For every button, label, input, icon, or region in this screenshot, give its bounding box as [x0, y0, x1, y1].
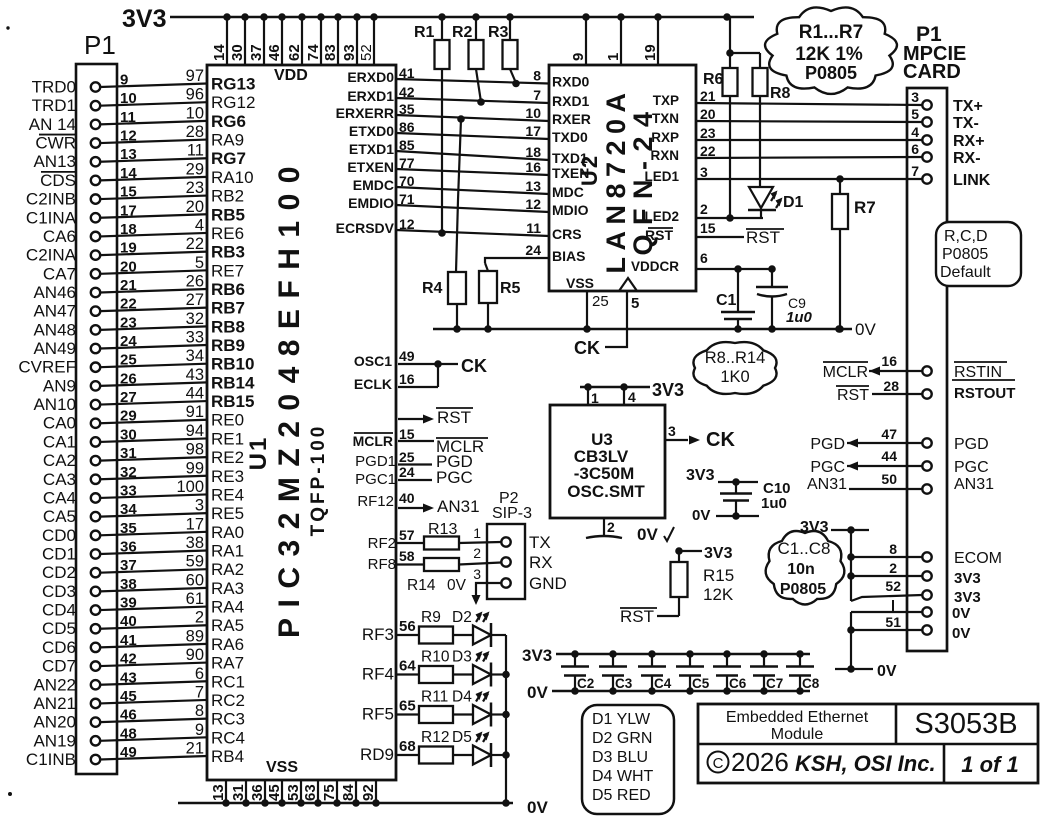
svg-text:2: 2 [473, 545, 481, 561]
svg-text:3V3: 3V3 [954, 570, 981, 587]
svg-text:22: 22 [186, 235, 204, 253]
svg-text:92: 92 [360, 784, 377, 801]
svg-text:23: 23 [120, 314, 137, 331]
svg-text:21: 21 [120, 277, 137, 294]
svg-text:RF4: RF4 [362, 665, 394, 684]
svg-text:C6: C6 [729, 676, 747, 691]
svg-text:BIAS: BIAS [552, 248, 585, 264]
svg-text:RX-: RX- [953, 150, 981, 167]
svg-text:15: 15 [120, 184, 137, 201]
svg-text:49: 49 [120, 744, 137, 761]
svg-text:RST: RST [746, 228, 780, 247]
svg-text:21: 21 [186, 739, 204, 757]
svg-text:35: 35 [120, 520, 137, 537]
svg-text:14: 14 [211, 44, 228, 61]
svg-text:RA6: RA6 [211, 635, 244, 654]
svg-text:37: 37 [120, 557, 137, 574]
svg-text:1 of 1: 1 of 1 [961, 752, 1018, 777]
svg-text:4: 4 [195, 216, 204, 234]
svg-text:11: 11 [120, 109, 136, 126]
svg-text:RA2: RA2 [211, 560, 244, 579]
svg-text:R12: R12 [421, 729, 449, 746]
svg-text:EMDC: EMDC [353, 177, 394, 193]
svg-text:1u0: 1u0 [761, 495, 787, 512]
svg-text:MDC: MDC [552, 184, 584, 200]
svg-text:34: 34 [186, 347, 204, 365]
svg-text:CD6: CD6 [42, 638, 76, 657]
svg-text:TRD0: TRD0 [32, 78, 76, 97]
svg-text:S3053B: S3053B [914, 708, 1017, 740]
svg-text:24: 24 [120, 333, 137, 350]
svg-text:10: 10 [186, 104, 204, 122]
svg-text:77: 77 [399, 155, 415, 171]
svg-text:29: 29 [120, 408, 137, 425]
svg-text:27: 27 [186, 291, 204, 309]
svg-text:13: 13 [525, 178, 541, 194]
svg-text:MCLR: MCLR [353, 433, 393, 449]
svg-text:CD7: CD7 [42, 657, 76, 676]
svg-text:AN48: AN48 [33, 320, 76, 339]
svg-text:RF3: RF3 [362, 625, 394, 644]
svg-text:CD1: CD1 [42, 545, 76, 564]
svg-text:C1..C8: C1..C8 [778, 539, 831, 558]
svg-text:47: 47 [881, 426, 897, 442]
svg-text:70: 70 [399, 173, 415, 189]
svg-text:0V: 0V [952, 605, 970, 622]
svg-text:32: 32 [186, 310, 204, 328]
svg-text:RF5: RF5 [362, 705, 394, 724]
svg-text:1: 1 [605, 53, 622, 61]
svg-text:AN9: AN9 [43, 376, 76, 395]
svg-text:0V: 0V [447, 577, 467, 594]
svg-text:R4: R4 [422, 280, 443, 297]
svg-text:6: 6 [195, 665, 204, 683]
svg-text:97: 97 [186, 67, 204, 85]
svg-text:90: 90 [186, 646, 204, 664]
svg-text:RA9: RA9 [211, 131, 244, 150]
svg-text:RB15: RB15 [211, 392, 254, 411]
svg-text:3: 3 [195, 497, 204, 515]
svg-text:RA7: RA7 [211, 654, 244, 673]
svg-text:TX-: TX- [953, 115, 979, 132]
svg-text:36: 36 [120, 539, 137, 556]
svg-text:P1: P1 [84, 30, 116, 60]
svg-text:CWR: CWR [35, 134, 76, 153]
svg-text:8: 8 [533, 68, 541, 84]
svg-text:25: 25 [399, 449, 415, 465]
svg-text:25: 25 [120, 352, 137, 369]
svg-text:19: 19 [642, 44, 659, 61]
svg-text:CA1: CA1 [43, 432, 76, 451]
svg-text:RB3: RB3 [211, 243, 245, 262]
svg-text:6: 6 [911, 141, 919, 157]
svg-text:RST: RST [620, 607, 654, 626]
svg-text:KSH, OSI Inc.: KSH, OSI Inc. [795, 751, 936, 776]
svg-text:RE6: RE6 [211, 224, 244, 243]
svg-text:RB9: RB9 [211, 336, 245, 355]
svg-text:61: 61 [186, 590, 204, 608]
svg-text:9: 9 [570, 53, 587, 61]
svg-text:R1...R7: R1...R7 [799, 22, 863, 43]
svg-text:AN22: AN22 [33, 675, 76, 694]
svg-text:37: 37 [248, 44, 265, 61]
svg-text:74: 74 [305, 44, 322, 61]
svg-text:RXD1: RXD1 [552, 93, 590, 109]
svg-text:R9: R9 [421, 609, 441, 626]
svg-text:RC2: RC2 [211, 691, 245, 710]
svg-text:7: 7 [911, 163, 919, 179]
svg-text:RB6: RB6 [211, 280, 245, 299]
svg-text:49: 49 [399, 348, 415, 364]
svg-text:RX: RX [529, 553, 553, 572]
svg-text:C1INB: C1INB [26, 750, 76, 769]
svg-text:10n: 10n [787, 561, 815, 578]
svg-text:13: 13 [120, 146, 137, 163]
svg-text:PGD: PGD [954, 436, 989, 453]
svg-text:R2: R2 [452, 24, 473, 41]
svg-text:R1: R1 [414, 24, 435, 41]
svg-text:44: 44 [186, 385, 204, 403]
svg-text:P0805: P0805 [942, 246, 988, 263]
svg-text:CA5: CA5 [43, 507, 76, 526]
svg-text:RF12: RF12 [357, 493, 394, 510]
svg-text:ECRSDV: ECRSDV [336, 220, 395, 236]
svg-text:AN31: AN31 [954, 476, 994, 493]
svg-text:RE4: RE4 [211, 485, 244, 504]
svg-text:25: 25 [592, 293, 609, 310]
svg-text:3V3: 3V3 [122, 5, 166, 33]
svg-text:52: 52 [358, 44, 375, 61]
svg-text:AN21: AN21 [33, 694, 76, 713]
svg-text:2026: 2026 [731, 747, 789, 777]
svg-text:34: 34 [120, 501, 137, 518]
svg-text:3: 3 [911, 89, 919, 105]
svg-text:C3: C3 [615, 676, 633, 691]
svg-text:R15: R15 [703, 566, 734, 585]
svg-text:43: 43 [120, 669, 137, 686]
svg-text:8: 8 [889, 541, 897, 557]
svg-text:89: 89 [186, 627, 204, 645]
svg-text:7: 7 [533, 87, 541, 103]
svg-text:RD9: RD9 [360, 745, 394, 764]
svg-text:36: 36 [249, 784, 266, 801]
svg-text:24: 24 [399, 464, 415, 480]
svg-text:RA4: RA4 [211, 598, 244, 617]
svg-text:CA4: CA4 [43, 488, 76, 507]
svg-text:RB10: RB10 [211, 355, 254, 374]
svg-text:20: 20 [186, 198, 204, 216]
svg-text:RF2: RF2 [368, 535, 396, 552]
svg-text:C1: C1 [716, 292, 737, 309]
svg-text:AN 14: AN 14 [29, 115, 76, 134]
svg-text:R,C,D: R,C,D [944, 228, 988, 245]
svg-text:94: 94 [186, 422, 204, 440]
svg-text:D3: D3 [452, 649, 472, 666]
svg-text:PGC: PGC [436, 468, 473, 487]
svg-text:RG7: RG7 [211, 149, 246, 168]
svg-text:28: 28 [186, 123, 204, 141]
svg-text:32: 32 [120, 464, 137, 481]
svg-text:16: 16 [881, 353, 897, 369]
svg-text:1u0: 1u0 [786, 309, 813, 326]
svg-text:TXEN: TXEN [552, 165, 589, 181]
svg-text:AN19: AN19 [33, 731, 76, 750]
svg-text:MDIO: MDIO [552, 202, 589, 218]
svg-text:12: 12 [120, 128, 137, 145]
svg-text:12: 12 [525, 196, 541, 212]
svg-text:RXER: RXER [552, 111, 591, 127]
svg-text:AN10: AN10 [33, 395, 76, 414]
svg-text:64: 64 [399, 658, 416, 675]
svg-text:20: 20 [120, 258, 137, 275]
svg-text:24: 24 [525, 242, 541, 258]
svg-text:RSTIN: RSTIN [954, 364, 1002, 381]
svg-text:9: 9 [120, 72, 128, 89]
svg-text:RE2: RE2 [211, 448, 244, 467]
svg-text:CA7: CA7 [43, 264, 76, 283]
svg-text:23: 23 [700, 125, 716, 141]
svg-text:C1INA: C1INA [26, 208, 77, 227]
svg-text:R3: R3 [488, 24, 509, 41]
svg-text:2: 2 [607, 519, 615, 535]
svg-text:LED2: LED2 [644, 209, 679, 224]
svg-text:1: 1 [591, 390, 599, 406]
svg-text:CVREF: CVREF [18, 358, 76, 377]
svg-text:71: 71 [399, 191, 415, 207]
svg-text:C2INB: C2INB [26, 190, 76, 209]
svg-text:TXN: TXN [652, 111, 679, 126]
svg-text:AN20: AN20 [33, 713, 76, 732]
svg-text:RA0: RA0 [211, 523, 244, 542]
svg-text:ECOM: ECOM [954, 550, 1002, 567]
svg-text:LINK: LINK [953, 172, 991, 189]
svg-text:3V3: 3V3 [686, 467, 715, 484]
svg-text:5: 5 [195, 254, 204, 272]
svg-text:53: 53 [285, 784, 302, 801]
svg-text:R6: R6 [703, 71, 724, 88]
svg-text:7: 7 [195, 683, 204, 701]
svg-text:22: 22 [120, 296, 137, 313]
svg-text:D3 BLU: D3 BLU [592, 749, 648, 766]
svg-text:31: 31 [230, 784, 247, 801]
svg-text:30: 30 [229, 44, 246, 61]
svg-text:TRD1: TRD1 [32, 96, 76, 115]
svg-text:OSC1: OSC1 [354, 353, 392, 369]
svg-text:RB7: RB7 [211, 299, 245, 318]
svg-text:PIC32MZ2048EFH100: PIC32MZ2048EFH100 [273, 156, 306, 638]
svg-text:RG13: RG13 [211, 75, 255, 94]
svg-text:50: 50 [881, 471, 897, 487]
svg-text:ERXERR: ERXERR [336, 105, 394, 121]
svg-text:TXP: TXP [653, 93, 679, 108]
svg-text:83: 83 [322, 44, 339, 61]
svg-text:RB8: RB8 [211, 317, 245, 336]
svg-text:85: 85 [399, 137, 415, 153]
svg-text:GND: GND [529, 574, 567, 593]
svg-text:RE1: RE1 [211, 429, 244, 448]
svg-text:96: 96 [186, 86, 204, 104]
svg-text:RG6: RG6 [211, 112, 246, 131]
svg-text:C2INA: C2INA [26, 246, 77, 265]
svg-text:12K: 12K [703, 585, 734, 604]
svg-text:RB2: RB2 [211, 187, 244, 206]
svg-text:40: 40 [399, 490, 415, 506]
svg-text:Embedded Ethernet: Embedded Ethernet [726, 709, 869, 726]
svg-text:VDD: VDD [274, 67, 308, 84]
svg-text:EMDIO: EMDIO [348, 195, 394, 211]
svg-text:CDS: CDS [40, 171, 76, 190]
svg-text:51: 51 [885, 614, 901, 630]
svg-text:56: 56 [399, 618, 416, 635]
svg-text:PGD: PGD [810, 436, 845, 453]
svg-text:RA10: RA10 [211, 168, 254, 187]
svg-text:TXD1: TXD1 [552, 150, 588, 166]
svg-text:63: 63 [302, 784, 319, 801]
svg-text:ERXD1: ERXD1 [347, 88, 394, 104]
svg-text:RB5: RB5 [211, 205, 245, 224]
svg-text:AN31: AN31 [807, 476, 847, 493]
svg-text:PGC: PGC [954, 459, 989, 476]
svg-text:3: 3 [473, 566, 481, 582]
svg-text:RST: RST [437, 408, 471, 427]
svg-text:RA1: RA1 [211, 542, 244, 561]
svg-text:AN47: AN47 [33, 302, 76, 321]
svg-text:Default: Default [940, 264, 991, 281]
svg-text:LED1: LED1 [644, 169, 679, 184]
svg-text:42: 42 [120, 651, 137, 668]
svg-text:2: 2 [195, 609, 204, 627]
svg-text:D1: D1 [783, 194, 804, 211]
svg-text:RSTOUT: RSTOUT [954, 385, 1015, 402]
svg-text:18: 18 [120, 221, 137, 238]
svg-text:RA5: RA5 [211, 616, 244, 635]
svg-text:42: 42 [399, 84, 415, 100]
svg-text:58: 58 [399, 548, 415, 564]
svg-text:13: 13 [210, 784, 227, 801]
svg-text:ETXD0: ETXD0 [349, 123, 394, 139]
svg-text:46: 46 [120, 707, 137, 724]
svg-text:59: 59 [186, 553, 204, 571]
svg-text:2: 2 [889, 560, 897, 576]
svg-text:RA3: RA3 [211, 579, 244, 598]
svg-text:5: 5 [631, 295, 639, 312]
svg-text:VDDCR: VDDCR [631, 259, 679, 274]
svg-text:4: 4 [911, 124, 919, 140]
svg-text:CA0: CA0 [43, 414, 76, 433]
svg-text:RXN: RXN [650, 148, 679, 163]
svg-text:RE0: RE0 [211, 411, 244, 430]
svg-text:30: 30 [120, 426, 137, 443]
svg-text:RXD0: RXD0 [552, 74, 590, 90]
svg-text:D4 WHT: D4 WHT [592, 768, 654, 785]
svg-text:AN49: AN49 [33, 339, 76, 358]
svg-text:84: 84 [340, 784, 357, 801]
svg-text:3V3: 3V3 [522, 646, 552, 665]
svg-text:AN31: AN31 [437, 497, 480, 516]
svg-text:CA2: CA2 [43, 451, 76, 470]
svg-text:8: 8 [195, 702, 204, 720]
svg-text:9: 9 [195, 721, 204, 739]
svg-text:Module: Module [771, 726, 824, 743]
svg-text:17: 17 [120, 202, 137, 219]
svg-text:R5: R5 [500, 280, 521, 297]
svg-text:C4: C4 [654, 676, 672, 691]
svg-text:29: 29 [186, 160, 204, 178]
svg-text:R14: R14 [407, 577, 436, 594]
svg-text:100: 100 [176, 478, 204, 496]
svg-text:17: 17 [186, 515, 204, 533]
svg-text:VSS: VSS [266, 759, 298, 776]
svg-text:2: 2 [700, 201, 708, 217]
svg-text:44: 44 [881, 448, 897, 464]
svg-text:D5 RED: D5 RED [592, 787, 651, 804]
svg-text:31: 31 [120, 445, 137, 462]
svg-text:OSC.SMT: OSC.SMT [567, 482, 645, 501]
svg-text:R7: R7 [854, 198, 876, 217]
svg-text:RST: RST [837, 387, 869, 404]
svg-text:ETXEN: ETXEN [347, 159, 394, 175]
svg-text:86: 86 [399, 119, 415, 135]
svg-text:41: 41 [399, 65, 415, 81]
svg-text:45: 45 [120, 688, 137, 705]
svg-text:0V: 0V [855, 320, 876, 339]
svg-text:CK: CK [574, 338, 600, 358]
svg-text:R8: R8 [770, 85, 791, 102]
svg-text:28: 28 [883, 378, 899, 394]
svg-text:CD4: CD4 [42, 601, 76, 620]
svg-text:TX+: TX+ [953, 98, 983, 115]
svg-text:40: 40 [120, 613, 137, 630]
svg-text:RC1: RC1 [211, 672, 245, 691]
svg-text:38: 38 [186, 534, 204, 552]
svg-text:39: 39 [120, 595, 137, 612]
svg-text:P0805: P0805 [805, 63, 857, 83]
svg-text:PGC: PGC [810, 459, 845, 476]
svg-text:RE5: RE5 [211, 504, 244, 523]
svg-text:19: 19 [120, 240, 137, 257]
svg-text:5: 5 [911, 106, 919, 122]
svg-text:RC3: RC3 [211, 710, 245, 729]
svg-text:46: 46 [266, 44, 283, 61]
svg-text:12K 1%: 12K 1% [795, 44, 863, 65]
svg-text:0V: 0V [527, 683, 548, 702]
svg-text:C5: C5 [692, 676, 710, 691]
svg-text:48: 48 [120, 725, 137, 742]
svg-text:RX+: RX+ [953, 133, 985, 150]
svg-text:33: 33 [120, 482, 137, 499]
svg-text:CA6: CA6 [43, 227, 76, 246]
svg-text:43: 43 [186, 366, 204, 384]
svg-text:-3C50M: -3C50M [574, 464, 634, 483]
svg-text:AN13: AN13 [33, 152, 76, 171]
svg-text:99: 99 [186, 459, 204, 477]
svg-text:TXD0: TXD0 [552, 129, 588, 145]
svg-text:1: 1 [473, 525, 481, 541]
svg-text:RE3: RE3 [211, 467, 244, 486]
svg-text:41: 41 [120, 632, 137, 649]
svg-text:RG12: RG12 [211, 93, 255, 112]
svg-text:6: 6 [700, 250, 708, 266]
svg-text:CD5: CD5 [42, 619, 76, 638]
svg-text:TX: TX [529, 533, 551, 552]
svg-text:AN46: AN46 [33, 283, 76, 302]
svg-text:3V3: 3V3 [954, 589, 981, 606]
svg-text:0V: 0V [637, 525, 658, 544]
svg-text:C8: C8 [802, 676, 820, 691]
svg-text:52: 52 [885, 578, 901, 594]
svg-text:3: 3 [668, 423, 676, 439]
svg-text:RXP: RXP [651, 130, 679, 145]
